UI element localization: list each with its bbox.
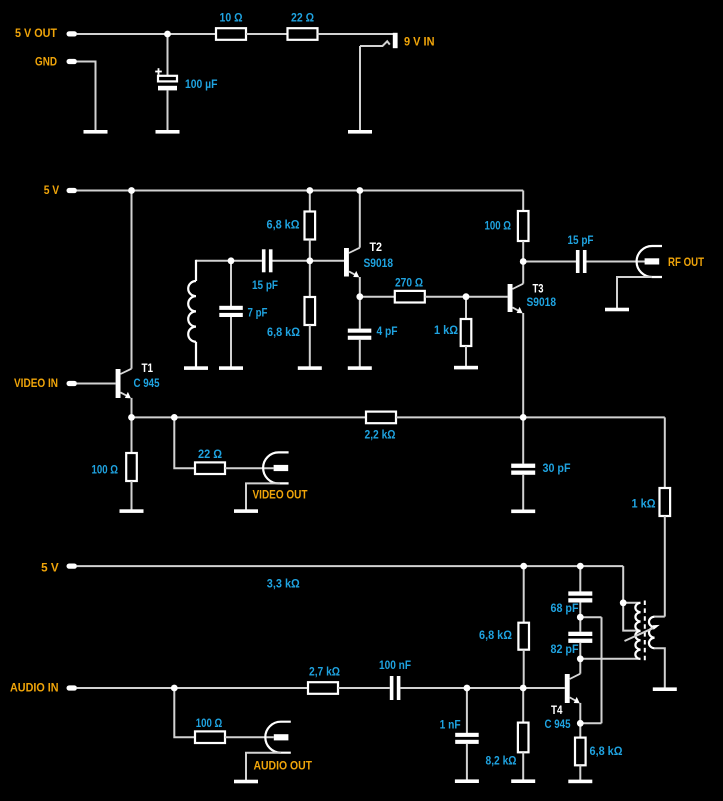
connector RF OUT bbox=[637, 246, 662, 277]
wire RF shield to ground bbox=[617, 277, 652, 308]
resistor R 1k right bbox=[660, 488, 671, 516]
wire 100nF to T4 base bbox=[400, 687, 564, 689]
wire base node to 6.8k bottom bbox=[309, 261, 311, 297]
capacitor C 100uF top plate bbox=[158, 76, 177, 82]
terminal 5 V rail video bbox=[67, 188, 78, 193]
resistor R 2.2k bbox=[366, 412, 396, 424]
wire rail end down to transformer bbox=[622, 566, 624, 603]
resistor R 22 ohm video bbox=[195, 462, 225, 474]
wire T2 emitter to 270 ohm bbox=[360, 296, 395, 298]
wire 5V audio rail bbox=[77, 565, 623, 567]
wire 7pF to ground bbox=[230, 317, 232, 367]
resistor R 100 ohm T1 emitter bbox=[126, 453, 137, 481]
wire 100 ohm to audio out bbox=[225, 736, 274, 738]
svg-text:7 pF: 7 pF bbox=[248, 307, 268, 320]
svg-text:4 pF: 4 pF bbox=[377, 325, 398, 338]
wire 68pF to mid node bbox=[579, 603, 581, 618]
ground 4pF bbox=[348, 366, 372, 370]
ground secondary bbox=[653, 687, 677, 691]
ground 1nF bbox=[455, 779, 479, 783]
capacitor C 4pF bbox=[348, 329, 372, 340]
capacitor C 100nF bbox=[390, 676, 401, 700]
svg-text:22 Ω: 22 Ω bbox=[291, 12, 314, 25]
wire T2 collector to rail bbox=[359, 191, 361, 248]
svg-text:S9018: S9018 bbox=[364, 257, 394, 270]
node rail/6.8k audio bbox=[520, 563, 527, 570]
resistor R 6.8k T4 emitter bbox=[575, 738, 586, 766]
node rail/6.8k bbox=[306, 187, 313, 194]
svg-text:AUDIO IN: AUDIO IN bbox=[10, 681, 59, 694]
wire T4 emitter down bbox=[579, 703, 581, 723]
capacitor C 68pF bbox=[568, 591, 592, 602]
wire rail to 100 ohm T3 bbox=[522, 191, 524, 212]
wire 1k to ground bbox=[465, 346, 467, 366]
ground 100uF bbox=[156, 130, 180, 134]
wire rail to 6.8k audio bbox=[523, 566, 525, 623]
inductor TR1 primary winding bbox=[635, 603, 640, 659]
terminal 5 V OUT bbox=[67, 31, 78, 36]
svg-text:5 V: 5 V bbox=[41, 562, 59, 575]
svg-text:6,8 kΩ: 6,8 kΩ bbox=[267, 326, 300, 339]
wire emitter node to 4pF bbox=[359, 297, 361, 329]
wire secondary bottom bbox=[654, 648, 665, 687]
capacitor C 100uF polarity plus bbox=[155, 68, 162, 75]
node T4 collector bbox=[577, 655, 584, 662]
wire 22 ohm to video out bbox=[225, 467, 274, 469]
svg-text:68 pF: 68 pF bbox=[551, 602, 579, 615]
svg-text:15 pF: 15 pF bbox=[252, 279, 278, 292]
svg-text:T3: T3 bbox=[533, 283, 544, 296]
inductor TR1 secondary winding bbox=[649, 617, 655, 649]
transistor T3 S9018 bbox=[508, 284, 524, 314]
ground 6.8k bottom bbox=[298, 366, 322, 370]
terminal VIDEO IN bbox=[67, 381, 78, 386]
wire T3 emitter down bbox=[522, 313, 524, 417]
ground VIDEO OUT bbox=[234, 509, 258, 513]
node T2 base bbox=[306, 257, 313, 264]
terminal AUDIO IN bbox=[67, 685, 78, 690]
resistor R 270 ohm bbox=[395, 291, 425, 303]
wire 270 ohm to T3 base bbox=[425, 296, 508, 298]
terminal 5 V audio bbox=[67, 564, 78, 569]
wire 100uF to ground bbox=[167, 90, 169, 130]
wire mid node to 82pF bbox=[579, 617, 581, 632]
wire T1 emitter to 100 ohm bbox=[131, 417, 133, 453]
svg-text:9 V IN: 9 V IN bbox=[404, 36, 435, 49]
wire 4pF to ground bbox=[359, 340, 361, 367]
node 5V/100uF junction bbox=[164, 31, 171, 38]
wire emitter row to 30pF bbox=[522, 417, 524, 463]
wire emitter row right bbox=[396, 416, 665, 418]
wire emitter to 6.8k bbox=[579, 723, 581, 737]
svg-text:C 945: C 945 bbox=[545, 718, 571, 731]
resistor R 6.8k bottom bbox=[305, 297, 316, 325]
wire rail to 6.8k top bbox=[309, 191, 311, 212]
capacitor C 82pF bbox=[568, 632, 592, 643]
wire 1k right to transformer bbox=[664, 516, 666, 617]
ground AUDIO OUT bbox=[234, 780, 258, 784]
svg-text:100 Ω: 100 Ω bbox=[92, 464, 119, 477]
wire 100 ohm to ground bbox=[131, 481, 133, 510]
capacitor C 100uF bottom plate bbox=[158, 86, 177, 91]
wire secondary top bbox=[654, 616, 665, 618]
wire 9V jack contact to ground bbox=[359, 46, 361, 131]
svg-text:VIDEO IN: VIDEO IN bbox=[14, 377, 58, 390]
node T3 collector bbox=[520, 258, 527, 265]
svg-text:T4: T4 bbox=[551, 704, 563, 717]
wire T1 emitter down bbox=[131, 398, 133, 418]
wire 100 ohm to T3 collector node bbox=[522, 241, 524, 262]
wire between 10 ohm and 22 ohm bbox=[246, 33, 288, 35]
capacitor C 15pF RF bbox=[576, 250, 587, 273]
svg-text:6,8 kΩ: 6,8 kΩ bbox=[267, 219, 300, 232]
svg-text:100 µF: 100 µF bbox=[185, 78, 218, 91]
wire collector node to transformer bbox=[580, 658, 640, 660]
svg-text:3,3 kΩ: 3,3 kΩ bbox=[267, 578, 300, 591]
wire tank top to coil bbox=[196, 260, 231, 262]
svg-text:2,2 kΩ: 2,2 kΩ bbox=[365, 429, 396, 442]
svg-text:100 Ω: 100 Ω bbox=[485, 220, 512, 233]
wire 82pF to collector node bbox=[579, 643, 581, 659]
svg-text:100 nF: 100 nF bbox=[379, 659, 411, 672]
capacitor C 30pF bbox=[511, 464, 535, 475]
wire T4 collector up bbox=[579, 659, 581, 674]
node rail/T2 collector bbox=[356, 187, 363, 194]
resistor R 6.8k top bbox=[305, 212, 316, 240]
svg-text:82 pF: 82 pF bbox=[551, 643, 579, 656]
wire emitter node right bbox=[580, 722, 601, 724]
node tank top bbox=[228, 257, 235, 264]
node 8.2k branch bbox=[520, 685, 527, 692]
svg-text:T2: T2 bbox=[370, 241, 383, 254]
capacitor C 15pF osc bbox=[262, 249, 273, 272]
resistor R 10 ohm bbox=[216, 28, 246, 40]
node rail/T1 collector bbox=[128, 187, 135, 194]
ground 9V jack bbox=[348, 130, 372, 134]
wire 30pF to ground bbox=[522, 475, 524, 510]
svg-text:T1: T1 bbox=[142, 362, 154, 375]
ground RF OUT bbox=[605, 308, 629, 312]
wire 6.8k audio to base row bbox=[523, 650, 525, 688]
wire video out branch down bbox=[174, 417, 195, 468]
node audio out branch bbox=[171, 685, 178, 692]
wire base node to T2 bbox=[310, 260, 344, 262]
transistor T4 C945 bbox=[565, 674, 581, 704]
wire audio out shield to ground bbox=[246, 753, 281, 781]
wire 6.8k T4 to ground bbox=[579, 765, 581, 780]
svg-text:C 945: C 945 bbox=[134, 377, 160, 390]
ground 6.8k T4 bbox=[568, 780, 592, 784]
transformer tuning arrow bbox=[625, 625, 660, 641]
svg-text:10 Ω: 10 Ω bbox=[220, 12, 243, 25]
transistor T2 S9018 bbox=[344, 248, 360, 278]
svg-text:AUDIO OUT: AUDIO OUT bbox=[254, 760, 313, 773]
svg-text:5 V: 5 V bbox=[44, 184, 60, 197]
capacitor C 1nF bbox=[455, 733, 479, 744]
svg-text:100 Ω: 100 Ω bbox=[196, 717, 223, 730]
node video-out branch bbox=[171, 414, 178, 421]
wire 5V rail video bbox=[77, 190, 523, 192]
svg-text:RF OUT: RF OUT bbox=[668, 256, 705, 269]
wire row to 1k right bbox=[664, 417, 666, 488]
node T4 emitter bbox=[577, 720, 584, 727]
node T3 emitter row bbox=[520, 414, 527, 421]
wire 8.2k to ground bbox=[522, 752, 524, 780]
terminal GND bbox=[67, 59, 78, 64]
svg-text:S9018: S9018 bbox=[527, 296, 557, 309]
wire 8.2k branch down bbox=[522, 688, 524, 723]
capacitor C 7pF bbox=[219, 306, 243, 317]
wire primary tap bbox=[623, 603, 637, 631]
wire emitter row left bbox=[132, 416, 367, 418]
ground 30pF bbox=[511, 510, 535, 514]
svg-text:5 V OUT: 5 V OUT bbox=[15, 27, 58, 40]
wire rail to 68pF bbox=[579, 566, 581, 591]
node transformer top bbox=[620, 599, 627, 606]
transformer core dashed bbox=[644, 601, 646, 661]
svg-text:270 Ω: 270 Ω bbox=[395, 277, 423, 290]
node 1nF branch bbox=[464, 685, 471, 692]
resistor R 6.8k audio bbox=[518, 623, 529, 650]
svg-text:1 nF: 1 nF bbox=[440, 718, 461, 731]
node T2 emitter bbox=[356, 293, 363, 300]
wire 1nF branch down bbox=[466, 688, 468, 733]
svg-text:1 kΩ: 1 kΩ bbox=[434, 324, 458, 337]
wire 15pF to base node bbox=[273, 260, 310, 262]
svg-text:30 pF: 30 pF bbox=[543, 462, 571, 475]
resistor R 2.7k bbox=[308, 682, 338, 694]
resistor R 8.2k bbox=[518, 723, 529, 753]
svg-text:GND: GND bbox=[35, 56, 57, 69]
wire T2 emitter down bbox=[359, 277, 361, 297]
wire 6.8k bottom to ground bbox=[309, 325, 311, 367]
wire mid node right bbox=[580, 616, 601, 618]
wire 2.7k to 100nF bbox=[338, 687, 390, 689]
ground 7pF bbox=[219, 366, 243, 370]
inductor L1 tank coil bbox=[188, 260, 196, 367]
svg-text:8,2 kΩ: 8,2 kΩ bbox=[486, 754, 517, 767]
svg-text:1 kΩ: 1 kΩ bbox=[632, 498, 656, 511]
ground 8.2k bbox=[511, 779, 535, 783]
connector AUDIO OUT bbox=[265, 722, 291, 753]
resistor R 100 ohm audio bbox=[195, 731, 225, 743]
node 68pF/82pF bbox=[577, 614, 584, 621]
wire T3 collector to 15pF RF bbox=[523, 261, 576, 263]
resistor R 22 ohm bbox=[288, 28, 318, 40]
svg-text:VIDEO OUT: VIDEO OUT bbox=[253, 488, 309, 501]
svg-text:22 Ω: 22 Ω bbox=[198, 448, 222, 461]
wire GND to ground bbox=[77, 62, 96, 131]
transistor T1 C945 bbox=[116, 369, 132, 399]
wire junction to 100uF bbox=[167, 34, 169, 76]
wire 15pF to RF OUT bbox=[587, 261, 646, 263]
wire T3 collector up bbox=[522, 262, 524, 284]
wire tank node to 15pF bbox=[231, 260, 262, 262]
svg-text:6,8 kΩ: 6,8 kΩ bbox=[479, 629, 512, 642]
wire node to 1k bbox=[465, 297, 467, 319]
node T3 base / 1k bbox=[463, 293, 470, 300]
ground 1k base bbox=[454, 366, 478, 370]
ground coil bbox=[184, 366, 208, 370]
node T1 emitter bbox=[128, 414, 135, 421]
wire rail to T1 collector bbox=[131, 191, 133, 369]
svg-text:6,8 kΩ: 6,8 kΩ bbox=[590, 745, 623, 758]
node rail/68pF bbox=[577, 563, 584, 570]
resistor R 100 ohm T3 collector bbox=[518, 211, 529, 241]
connector VIDEO OUT bbox=[263, 452, 289, 483]
ground GND terminal bbox=[84, 130, 108, 134]
connector 9 V IN spring contact bbox=[360, 41, 390, 46]
connector 9 V IN jack pin bbox=[393, 33, 398, 48]
resistor R 1k T3 base bbox=[461, 319, 472, 346]
wire 1nF to ground bbox=[466, 744, 468, 780]
svg-text:15 pF: 15 pF bbox=[568, 234, 594, 247]
wire feedback down bbox=[601, 617, 603, 723]
wire tank top to 7pF bbox=[230, 261, 232, 306]
wire 6.8k top to base node bbox=[309, 240, 311, 261]
wire audio out branch down bbox=[174, 688, 195, 737]
ground 100 ohm T1 bbox=[120, 509, 144, 513]
wire 22 ohm to 9V jack bbox=[318, 33, 395, 35]
wire AUDIO IN row bbox=[77, 687, 308, 689]
wire VIDEO IN to T1 base bbox=[77, 383, 116, 385]
wire video out shield to ground bbox=[246, 483, 280, 509]
svg-text:2,7 kΩ: 2,7 kΩ bbox=[309, 666, 340, 679]
wire node to primary top bbox=[623, 602, 640, 604]
wire 5V OUT to 10 ohm bbox=[77, 33, 216, 35]
